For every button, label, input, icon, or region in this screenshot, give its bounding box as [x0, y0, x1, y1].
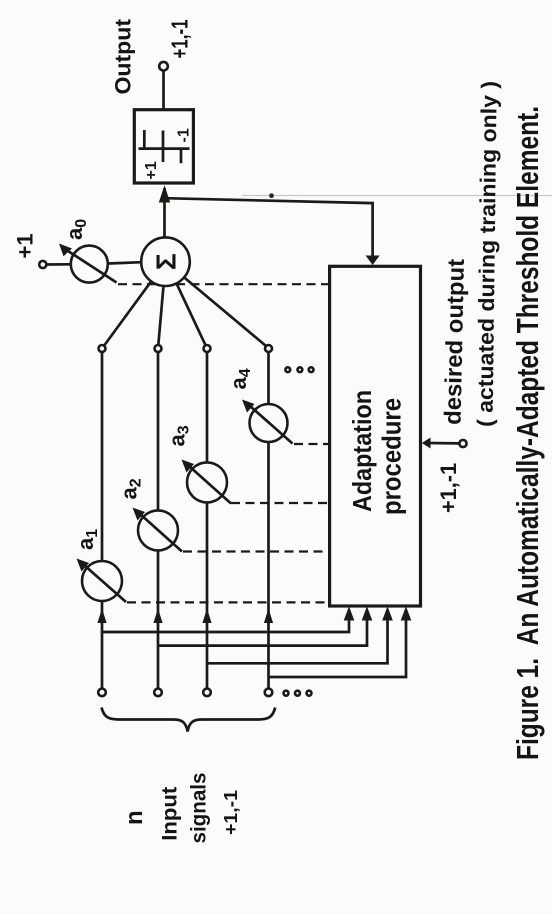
svg-text:desired output: desired output	[440, 258, 469, 425]
svg-text:+1: +1	[13, 233, 38, 258]
wire tap input2 to adaptation	[158, 616, 367, 646]
quantizer horizontal axis	[162, 131, 165, 163]
wire input line 3	[206, 349, 209, 689]
brace inputs	[102, 708, 276, 732]
node fan circle 4	[265, 345, 272, 352]
potentiometer a4	[226, 368, 293, 443]
node fan circle 2	[155, 345, 162, 352]
wire fan 2 to summer	[158, 286, 163, 345]
svg-text:Adaptation: Adaptation	[347, 390, 377, 512]
svg-text:a1: a1	[73, 529, 101, 550]
wire quantizer to output terminal	[162, 71, 165, 110]
dashed link a4	[294, 443, 330, 445]
wire tap input3 to adaptation	[207, 616, 388, 663]
scan dot artifact	[269, 193, 274, 198]
arrow into adaptation 3	[382, 606, 393, 620]
wire fan 1 to summer	[104, 281, 151, 345]
wire desired output stem	[429, 442, 459, 445]
svg-text:Input: Input	[159, 787, 182, 841]
svg-text:+1,-1: +1,-1	[220, 790, 241, 835]
adaptation procedure box	[330, 266, 421, 606]
svg-text:n: n	[121, 810, 148, 825]
arrow feedback into adaptation	[366, 256, 380, 266]
input terminal 2	[154, 689, 162, 697]
potentiometer a3	[165, 425, 232, 503]
svg-text:+1: +1	[143, 161, 160, 179]
wire tap input1 to adaptation	[102, 616, 349, 632]
input terminal 1	[98, 689, 106, 697]
arrow input line 3	[202, 609, 211, 624]
svg-text:Σ: Σ	[151, 253, 182, 270]
quantizer -1 level	[180, 149, 183, 164]
terminal +1 bias	[39, 261, 46, 268]
ellipsis dots inputs	[284, 691, 312, 696]
svg-text:Output: Output	[111, 18, 136, 94]
arrow input line 4	[264, 609, 273, 624]
arrow input line 2	[153, 609, 162, 624]
svg-text:a3: a3	[165, 425, 193, 446]
input terminal 3	[203, 689, 211, 697]
wire input line 2	[157, 349, 160, 689]
input terminal 4	[265, 689, 273, 697]
svg-text:+1,-1: +1,-1	[167, 19, 193, 58]
summer circle	[141, 237, 190, 286]
wire summer to quantizer	[163, 188, 166, 237]
quantizer vertical axis	[139, 147, 190, 150]
wire input line 4	[267, 349, 270, 689]
wire bias terminal to a0	[47, 263, 71, 266]
svg-text:a0: a0	[62, 219, 90, 240]
dashed link a3	[231, 502, 330, 504]
node fan circle 1	[99, 345, 106, 352]
arrow into adaptation 1	[344, 606, 355, 620]
node fan circle 3	[204, 345, 211, 352]
arrow desired output into adaptation	[422, 438, 431, 449]
svg-text:a4: a4	[226, 368, 254, 389]
wire fan 4 to summer	[184, 277, 266, 346]
arrow input line 1	[97, 609, 106, 624]
junction dot feedback tap	[162, 196, 168, 202]
svg-text:a2: a2	[117, 478, 145, 499]
wire tap input4 to adaptation	[269, 616, 407, 677]
wire fan 3 to summer	[177, 283, 206, 345]
wire feedback tap down	[165, 198, 373, 257]
arrow into quantizer	[159, 185, 170, 202]
desired output terminal	[459, 440, 466, 447]
quantizer +1 level	[143, 130, 146, 148]
svg-text:procedure: procedure	[379, 398, 407, 515]
potentiometer a1	[73, 529, 126, 602]
quantizer box	[134, 110, 193, 183]
svg-text:Figure 1. An Automatically-Ad: Figure 1. An Automatically-Adapted Thres…	[510, 106, 545, 760]
potentiometer a2	[117, 478, 183, 551]
dashed link a2	[183, 550, 330, 552]
arrow into adaptation 4	[401, 606, 412, 620]
svg-text:( actuated during training onl: ( actuated during training only )	[473, 81, 502, 427]
svg-text:+1,-1: +1,-1	[436, 463, 461, 513]
potentiometer a0	[59, 219, 117, 283]
scan streak artifact	[242, 195, 552, 197]
wire a0 to summer	[108, 262, 142, 263]
svg-text:signals: signals	[188, 773, 211, 844]
svg-text:-1: -1	[176, 128, 193, 142]
dashed link a0	[118, 283, 330, 285]
wire input line 1	[101, 349, 104, 689]
arrow into adaptation 2	[362, 606, 373, 620]
ellipsis dots fan	[285, 367, 313, 372]
dashed link a1	[127, 601, 330, 603]
output terminal	[159, 62, 168, 71]
